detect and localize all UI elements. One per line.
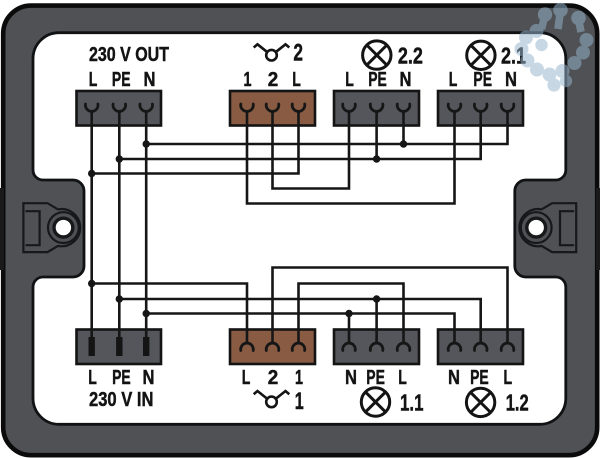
- node lamp1.1 PE junction: [373, 295, 380, 302]
- pin labels lamp2.1: L PE N: [449, 69, 517, 91]
- left mounting lug exterior: [0, 188, 4, 270]
- wire L bus top: switch2 L down to bus left to L feed: [92, 111, 299, 173]
- wire switch1 terminal1 to lamp1.1 L: [299, 284, 404, 344]
- wire lamp2.2 N tap: [402, 111, 405, 144]
- right mounting lug flange detail: [519, 203, 576, 252]
- terminal block 230V OUT (top left, gray): [77, 91, 162, 126]
- wire N bus top: 2.1 N down to bus left to N feed: [146, 111, 507, 144]
- lamp symbol 2.2: [363, 41, 391, 69]
- svg-text:L: L: [292, 69, 301, 91]
- terminal block lamp 1.2 (bottom, gray): [438, 330, 523, 365]
- svg-text:230 V IN: 230 V IN: [89, 389, 154, 411]
- svg-text:2: 2: [293, 40, 303, 67]
- svg-text:L: L: [449, 69, 458, 91]
- watermark logo: [515, 3, 594, 92]
- right mounting lug exterior: [596, 188, 600, 270]
- svg-text:230 V OUT: 230 V OUT: [89, 44, 169, 66]
- svg-text:L: L: [345, 69, 354, 91]
- svg-text:PE: PE: [473, 69, 492, 91]
- terminal cups 230V OUT: [85, 104, 98, 111]
- junction dots: [88, 140, 407, 317]
- terminal block switch circuit 1 (bottom, brown): [230, 330, 315, 365]
- wire switch1 terminal2 to lamp1.2 L: [273, 268, 508, 344]
- terminal block lamp 2.1 (top, gray): [438, 91, 523, 126]
- terminal block switch circuit 2 (top, brown): [230, 91, 315, 126]
- wire lamp1.1 N tap: [348, 314, 351, 344]
- wire switch2 terminal1 to lamp2.1 L: [247, 111, 455, 203]
- node lamp2.2 N junction: [400, 140, 407, 147]
- pin labels 230V IN: L PE N: [88, 367, 154, 389]
- svg-text:N: N: [144, 69, 156, 91]
- wire L feed vertical: [90, 111, 93, 337]
- svg-text:N: N: [345, 367, 357, 389]
- node PE / PE-bus bottom: [116, 295, 123, 302]
- svg-text:PE: PE: [470, 367, 489, 389]
- svg-text:N: N: [505, 69, 517, 91]
- switch symbol circuit 2: [254, 44, 290, 60]
- wire lamp2.2 PE tap: [375, 111, 378, 159]
- svg-text:1: 1: [244, 69, 252, 91]
- node L / L-bus top: [88, 170, 95, 177]
- wire PE bus bottom: lamp1.2 PE up to bus left to PE feed: [119, 299, 480, 343]
- pin labels lamp2.2: L PE N: [345, 69, 411, 91]
- pin labels lamp1.1: N PE L: [345, 367, 407, 389]
- svg-text:1.1: 1.1: [400, 389, 424, 415]
- svg-text:PE: PE: [112, 367, 131, 389]
- svg-text:N: N: [448, 367, 460, 389]
- terminal cups switch1: [241, 343, 254, 350]
- terminal block 230V IN (bottom left, gray): [77, 330, 162, 365]
- svg-text:PE: PE: [366, 367, 385, 389]
- pin labels switch2: 1 2 L: [244, 69, 301, 91]
- pin labels 230V OUT: L PE N: [89, 69, 156, 91]
- svg-text:PE: PE: [112, 69, 131, 91]
- terminal cups lamp1.1: [343, 343, 356, 350]
- svg-text:L: L: [242, 367, 251, 389]
- svg-text:2: 2: [268, 69, 279, 91]
- svg-text:L: L: [398, 367, 407, 389]
- wire PE feed vertical: [118, 111, 121, 337]
- svg-text:1: 1: [295, 388, 304, 415]
- wire N feed vertical: [145, 111, 148, 337]
- node N / N-bus bottom: [143, 310, 150, 317]
- node lamp1.1 N junction: [345, 310, 352, 317]
- terminal pins 230V IN: [89, 337, 150, 356]
- terminal cups lamp2.1: [448, 104, 461, 111]
- svg-text:2.2: 2.2: [398, 42, 423, 68]
- pin labels lamp1.2: N PE L: [448, 367, 512, 389]
- svg-text:L: L: [88, 367, 97, 389]
- pin labels switch1: L 2 1: [242, 367, 303, 389]
- right lug screw hole: [527, 218, 546, 237]
- wiring plate (white area with side notches): [33, 33, 566, 425]
- terminal cups lamp2.2: [343, 104, 356, 111]
- svg-text:1: 1: [295, 367, 303, 389]
- svg-text:N: N: [400, 69, 412, 91]
- lamp symbol 1.1: [361, 388, 389, 416]
- node PE / PE-bus top: [116, 155, 123, 162]
- terminal block lamp 2.2 (top, gray): [334, 91, 419, 126]
- svg-text:1.2: 1.2: [506, 389, 529, 415]
- wire switch2 terminal2 to lamp2.2 L: [273, 111, 350, 188]
- terminal cups lamp1.2: [448, 343, 461, 350]
- svg-text:2: 2: [268, 367, 279, 389]
- lamp symbol 2.1: [467, 41, 495, 69]
- svg-text:PE: PE: [368, 69, 387, 91]
- node N / N-bus top: [143, 140, 150, 147]
- terminal cups switch2: [241, 104, 254, 111]
- node lamp2.2 PE junction: [373, 155, 380, 162]
- node L / L-bus bottom: [88, 280, 95, 287]
- lamp symbol 1.2: [466, 388, 494, 416]
- terminal block lamp 1.1 (bottom, gray): [334, 330, 419, 365]
- wire PE bus top: 2.1 PE down to bus left to PE feed: [119, 111, 480, 159]
- svg-text:L: L: [504, 367, 513, 389]
- wire N bus bottom: lamp1.2 N up to bus left to N feed: [146, 314, 454, 344]
- svg-text:L: L: [89, 69, 98, 91]
- switch symbol circuit 1: [254, 391, 290, 407]
- left lug screw hole: [54, 218, 73, 237]
- wire lamp1.1 PE tap: [375, 299, 378, 343]
- left mounting lug flange detail: [23, 203, 80, 252]
- wire L bus bottom: switch1 L up to bus left to L feed: [92, 284, 247, 344]
- svg-text:N: N: [143, 367, 155, 389]
